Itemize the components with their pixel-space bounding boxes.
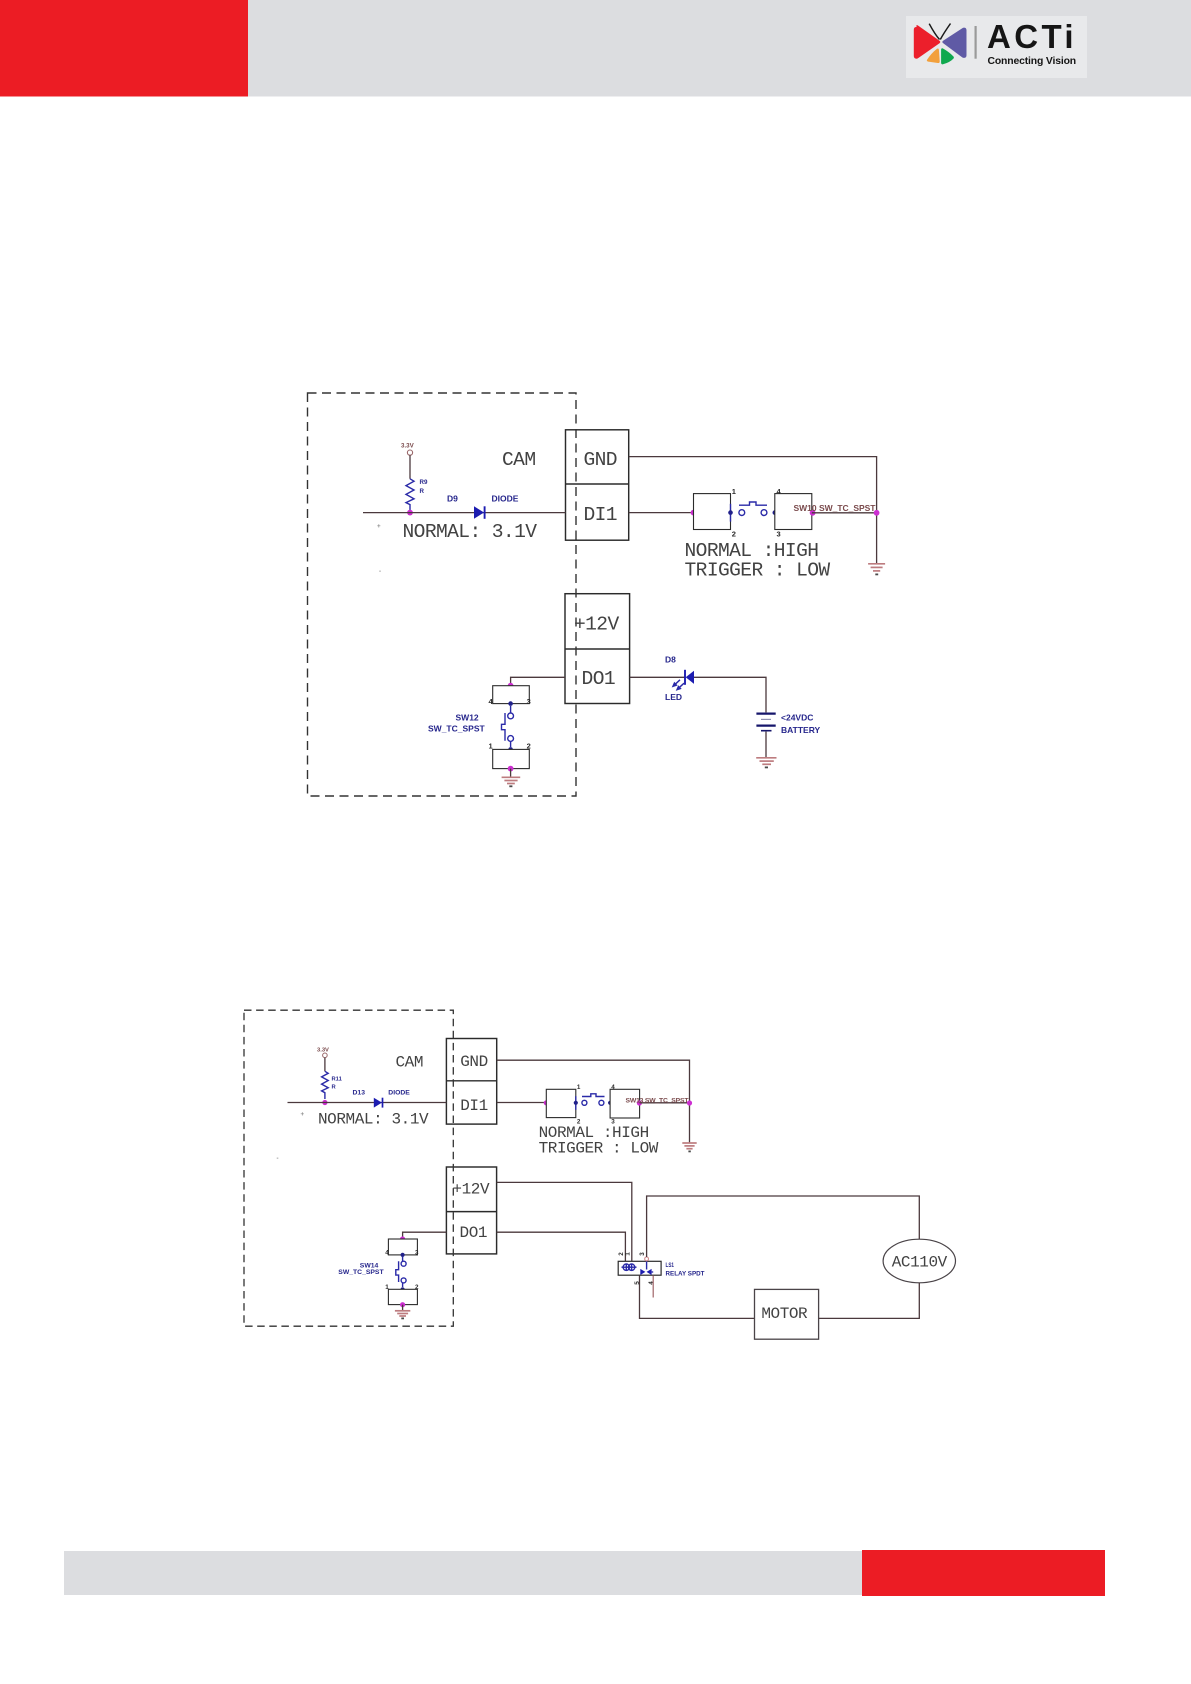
svg-text:LS1: LS1: [666, 1262, 675, 1269]
junction SW13 right: [637, 1100, 642, 1105]
wire 3.3V to resistor: [409, 455, 411, 479]
svg-text:2: 2: [415, 1284, 419, 1291]
svg-text:GND: GND: [460, 1053, 488, 1071]
svg-text:+: +: [377, 523, 381, 530]
svg-text:-: -: [379, 568, 381, 575]
SW13 contact dot left: [574, 1101, 578, 1105]
wire 3.3V to resistor 2: [324, 1058, 326, 1072]
power node circle: [407, 450, 412, 455]
SW12 contact dot bottom: [508, 747, 513, 752]
SW10 pole line: [730, 504, 732, 522]
wire SW14 to ground: [402, 1305, 404, 1311]
svg-text:3: 3: [777, 530, 781, 539]
relay pin 3 circle: [645, 1257, 649, 1261]
svg-text:1: 1: [577, 1084, 581, 1091]
svg-text:<24VDC: <24VDC: [781, 713, 813, 723]
junction SW14 top: [400, 1236, 405, 1241]
svg-text:DO1: DO1: [582, 668, 615, 690]
connector J-top boxes GND/DI1: [566, 430, 629, 540]
svg-text:SW13 SW_TC_SPST: SW13 SW_TC_SPST: [626, 1097, 690, 1104]
logo butterfly antennae: [929, 24, 950, 40]
svg-text:2: 2: [527, 742, 531, 751]
svg-text:NORMAL: 3.1V: NORMAL: 3.1V: [403, 521, 538, 543]
svg-text:3: 3: [639, 1252, 646, 1256]
SW10 contact dot right: [773, 510, 778, 515]
svg-text:LED: LED: [665, 692, 682, 702]
SW13 pole line: [575, 1096, 577, 1110]
ground SW10 net: [868, 564, 885, 575]
ground SW13 net: [682, 1143, 696, 1151]
svg-text:1: 1: [624, 1252, 631, 1256]
relay LS1: [618, 1261, 661, 1275]
svg-text:SW10 SW_TC_SPST: SW10 SW_TC_SPST: [794, 503, 877, 513]
SW12 button: [502, 706, 514, 747]
junction at SW13 left: [544, 1100, 549, 1105]
junction SW10 right: [810, 510, 816, 516]
junction at SW10 left: [691, 510, 697, 516]
switch SW14 bottom pad: [388, 1289, 417, 1304]
svg-text:D8: D8: [665, 654, 676, 664]
wire LED to battery: [694, 677, 766, 712]
svg-text:3.3V: 3.3V: [401, 443, 415, 450]
svg-text:1: 1: [732, 487, 736, 496]
logo background plate: [906, 16, 1087, 78]
svg-text:BATTERY: BATTERY: [781, 725, 821, 735]
header gray banner: [248, 0, 1191, 97]
svg-text:ACTi: ACTi: [987, 18, 1077, 55]
svg-text:R: R: [332, 1085, 337, 1091]
junction SW12 top: [508, 683, 514, 689]
svg-text:1: 1: [385, 1284, 389, 1291]
svg-text:CAM: CAM: [396, 1053, 424, 1071]
LED emission arrows: [672, 680, 684, 691]
diode D13: [374, 1098, 383, 1108]
header red banner: [0, 0, 248, 97]
wire relay pin5 to motor: [640, 1275, 755, 1318]
logo butterfly purple wing: [942, 28, 966, 58]
SW13 button: [582, 1094, 605, 1106]
wire SW13 to ground net: [640, 1102, 690, 1104]
logo butterfly orange wing: [927, 48, 940, 63]
wire SW12 to ground: [510, 769, 512, 777]
switch SW10 right pad: [775, 494, 812, 530]
svg-text:+12V: +12V: [574, 614, 619, 636]
svg-text:DIODE: DIODE: [492, 494, 519, 504]
switch SW10 left pad: [694, 494, 731, 530]
dashed camera boundary box 2: [244, 1010, 453, 1326]
wire relay pin3 to AC110V: [647, 1196, 920, 1257]
SW14 button: [396, 1257, 406, 1287]
wire DO1 to SW12: [511, 677, 565, 685]
svg-text:AC110V: AC110V: [892, 1254, 948, 1272]
wire +12V to relay coil: [497, 1182, 632, 1261]
svg-text:TRIGGER : LOW: TRIGGER : LOW: [539, 1139, 659, 1157]
SW14 contact dot bottom: [401, 1287, 405, 1291]
SW10 contact dot left: [728, 510, 733, 515]
wire SW10 to ground net: [812, 512, 877, 514]
resistor R11: [322, 1071, 329, 1099]
svg-text:R: R: [420, 488, 425, 495]
power node circle 2: [323, 1053, 328, 1058]
svg-text:4: 4: [385, 1250, 389, 1257]
svg-text:Connecting Vision: Connecting Vision: [988, 56, 1076, 67]
wire DI1 to switch: [629, 512, 694, 514]
junction at ground column 2: [687, 1100, 692, 1105]
switch SW12 bottom pad: [493, 749, 530, 768]
svg-text:3: 3: [415, 1250, 419, 1257]
wire DO1 to LED: [630, 676, 685, 678]
svg-text:SW12: SW12: [456, 713, 479, 723]
switch SW12 top pad: [493, 686, 530, 704]
svg-text:DIODE: DIODE: [388, 1089, 410, 1096]
SW12 contact dot top: [508, 701, 513, 706]
wire battery to ground: [765, 732, 767, 758]
wire DO1 to relay coil: [497, 1232, 626, 1261]
svg-text:+: +: [301, 1111, 305, 1118]
switch SW14 top pad: [388, 1239, 417, 1255]
svg-text:SW_TC_SPST: SW_TC_SPST: [338, 1269, 384, 1276]
SW13 contact dot right: [608, 1101, 612, 1105]
junction SW14 bottom: [400, 1302, 405, 1307]
AC110V source ellipse: [883, 1239, 955, 1283]
svg-text:SW_TC_SPST: SW_TC_SPST: [428, 723, 485, 733]
SW10 button: [739, 502, 767, 516]
SW14 contact dot top: [401, 1253, 405, 1257]
svg-text:DI1: DI1: [583, 504, 616, 526]
footer gray bar: [64, 1551, 862, 1595]
svg-text:R9: R9: [420, 479, 428, 486]
connector +12V/DO1 box: [565, 594, 630, 704]
svg-text:4: 4: [611, 1084, 615, 1091]
junction SW12 bottom: [508, 766, 514, 772]
svg-text:MOTOR: MOTOR: [761, 1305, 808, 1323]
svg-text:2: 2: [732, 530, 736, 539]
ground SW14: [395, 1311, 410, 1319]
svg-text:D9: D9: [447, 494, 458, 504]
wire motor to AC110V: [819, 1283, 920, 1319]
ground battery: [756, 758, 776, 768]
svg-text:3.3V: 3.3V: [317, 1047, 329, 1053]
svg-text:RELAY SPDT: RELAY SPDT: [666, 1271, 706, 1278]
svg-text:TRIGGER : LOW: TRIGGER : LOW: [685, 559, 831, 581]
footer red bar: [862, 1550, 1105, 1596]
wire GND to right vertical: [629, 457, 877, 564]
battery B1: [756, 714, 775, 731]
svg-text:GND: GND: [583, 449, 616, 471]
switch SW13 right pad: [610, 1089, 640, 1118]
svg-text:4: 4: [648, 1281, 655, 1285]
resistor R9: [406, 479, 414, 511]
svg-text:+12V: +12V: [452, 1180, 490, 1198]
svg-text:NORMAL: 3.1V: NORMAL: 3.1V: [318, 1111, 429, 1129]
diode D9: [474, 506, 485, 519]
ground SW12: [502, 777, 521, 786]
dashed camera boundary box: [308, 393, 577, 796]
LED D8: [685, 670, 694, 685]
junction node DI1 net: [407, 510, 413, 516]
relay pin4 stub: [652, 1275, 654, 1297]
svg-text:DI1: DI1: [460, 1097, 488, 1115]
svg-text:R11: R11: [332, 1077, 343, 1083]
svg-text:1: 1: [489, 742, 493, 751]
wire DI1 2 to switch: [497, 1102, 547, 1104]
logo divider bar: [975, 26, 977, 59]
logo butterfly green wing: [941, 48, 954, 64]
wire DI1 net horizontal: [363, 512, 566, 514]
svg-text:DO1: DO1: [460, 1224, 488, 1242]
junction node DI1 net 2: [322, 1100, 327, 1105]
connector 2 +12V/DO1 box: [446, 1167, 496, 1254]
svg-text:-: -: [277, 1155, 279, 1162]
svg-text:CAM: CAM: [502, 449, 535, 471]
motor box: [755, 1289, 819, 1339]
wire DO1 to SW14: [403, 1232, 447, 1239]
svg-text:3: 3: [527, 697, 531, 706]
logo butterfly red wing: [914, 25, 941, 59]
svg-text:D13: D13: [353, 1089, 366, 1096]
wire DI1 net horizontal 2: [288, 1102, 447, 1104]
connector 2 GND/DI1 box: [446, 1039, 496, 1125]
wire GND 2 to right vertical: [497, 1060, 690, 1142]
junction at ground column: [874, 510, 880, 516]
switch SW13 left pad: [546, 1089, 576, 1117]
